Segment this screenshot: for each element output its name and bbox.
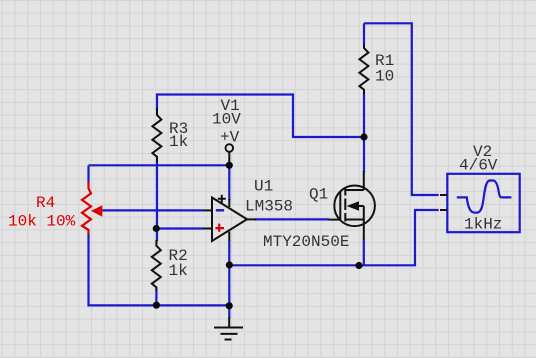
svg-text:10k 10%: 10k 10% (8, 213, 76, 231)
svg-text:10: 10 (375, 68, 394, 86)
svg-text:U1: U1 (254, 178, 273, 196)
svg-text:1kHz: 1kHz (464, 216, 502, 234)
svg-text:1k: 1k (169, 262, 188, 280)
svg-text:4/6V: 4/6V (459, 157, 498, 175)
svg-text:1k: 1k (169, 133, 188, 151)
svg-text:Q1: Q1 (309, 186, 328, 204)
svg-text:LM358: LM358 (245, 198, 293, 216)
svg-text:10V: 10V (212, 111, 241, 129)
svg-text:+V: +V (220, 129, 240, 147)
svg-text:MTY20N50E: MTY20N50E (263, 233, 349, 251)
svg-text:R4: R4 (36, 194, 55, 212)
